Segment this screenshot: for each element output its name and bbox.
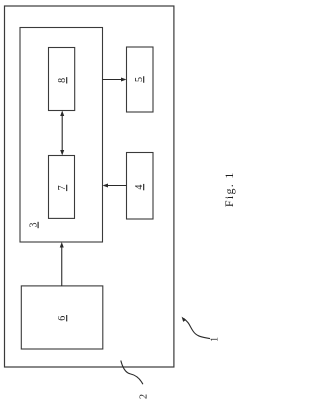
label 6 (57, 315, 68, 321)
svg-text:Fig. 1: Fig. 1 (222, 171, 236, 207)
label 1 with curved leader arrow (181, 316, 220, 341)
outer apparatus box (enclosure 2) (4, 6, 173, 367)
svg-text:5: 5 (134, 77, 145, 82)
svg-text:7: 7 (57, 185, 68, 190)
label 4 (134, 183, 145, 189)
svg-text:6: 6 (57, 315, 68, 320)
box 7 (48, 155, 74, 218)
wire: arrow from box 6 to box 3 (59, 242, 63, 286)
label 7 (57, 184, 68, 190)
wire: arrow from box 4 to box 3 (102, 183, 126, 187)
svg-text:4: 4 (134, 184, 145, 189)
label 8 (57, 77, 68, 83)
label 3 (28, 221, 39, 227)
label 2 with curved leader (120, 360, 149, 399)
box 3 (unit) (20, 27, 103, 242)
box 8 (48, 47, 74, 110)
svg-text:8: 8 (57, 77, 68, 82)
label 5 (134, 76, 145, 82)
svg-text:2: 2 (138, 394, 149, 399)
wire: double arrow between box 7 and box 8 (60, 110, 64, 155)
box 5 (126, 47, 153, 112)
box 6 (21, 285, 103, 348)
caption Fig. 1 (222, 171, 236, 207)
svg-text:1: 1 (209, 336, 220, 341)
wire: arrow from box 3 to box 5 (102, 77, 126, 81)
box 4 (126, 152, 153, 219)
svg-text:3: 3 (28, 222, 39, 227)
